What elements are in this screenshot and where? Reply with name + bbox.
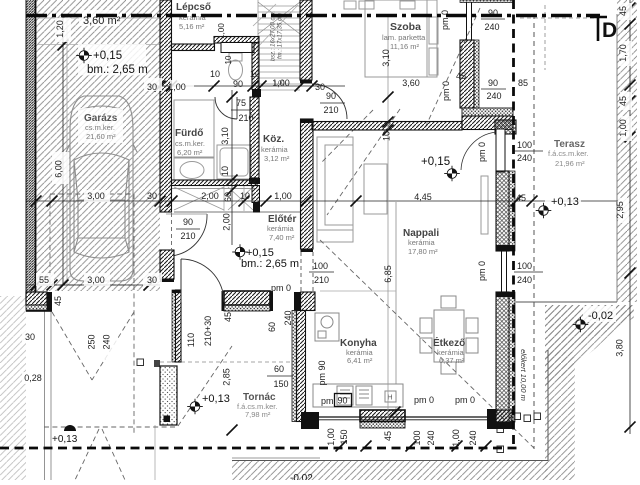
svg-text:150: 150 [339, 429, 349, 444]
svg-text:100: 100 [412, 430, 422, 445]
svg-text:60: 60 [267, 322, 277, 332]
tornac dashed edge [44, 426, 176, 428]
svg-text:6,37 m²: 6,37 m² [439, 356, 465, 365]
svg-text:pm 0: pm 0 [477, 261, 487, 281]
svg-text:240: 240 [102, 334, 112, 349]
wall with window (lepcso north) [214, 37, 259, 44]
svg-text:kerámia: kerámia [267, 224, 295, 233]
furdo south wall [172, 180, 258, 186]
svg-text:75: 75 [236, 98, 246, 108]
right vertical dim x=630 [629, 0, 631, 434]
svg-text:1,00: 1,00 [274, 191, 292, 201]
svg-text:45: 45 [383, 431, 393, 441]
svg-text:1,00: 1,00 [618, 119, 628, 137]
svg-text:bm.: 2,65 m: bm.: 2,65 m [87, 64, 148, 76]
svg-text:fm.: 17x17,35 cm: fm.: 17x17,35 cm [278, 13, 284, 59]
konyha west wall [292, 311, 297, 422]
left vertical dimension line x=63 [62, 15, 64, 285]
sofa nappali [317, 137, 353, 242]
tornac west wall [172, 290, 176, 362]
svg-text:30: 30 [315, 82, 325, 92]
svg-text:100: 100 [517, 140, 532, 150]
svg-text:210: 210 [323, 105, 338, 115]
wc door arc [215, 97, 237, 119]
svg-text:3,00: 3,00 [87, 191, 105, 201]
bed in szoba [344, 0, 438, 77]
svg-text:210: 210 [180, 231, 195, 241]
svg-text:210: 210 [314, 275, 329, 285]
svg-text:pm: pm [321, 396, 334, 406]
svg-text:f.á.cs.m.ker.: f.á.cs.m.ker. [548, 149, 588, 158]
svg-text:cs.m.ker.: cs.m.ker. [85, 123, 115, 132]
svg-text:bsz.: 16x27,00 cm.: bsz.: 16x27,00 cm. [271, 11, 277, 61]
svg-text:1,00: 1,00 [451, 429, 461, 447]
svg-text:30: 30 [147, 191, 157, 201]
ground right of building below terrace [545, 305, 634, 362]
svg-text:3,80: 3,80 [615, 339, 625, 357]
svg-text:-0,02: -0,02 [588, 310, 613, 322]
svg-text:5,16 m²: 5,16 m² [179, 22, 205, 31]
svg-text:6,41 m²: 6,41 m² [347, 356, 373, 365]
svg-text:0,28: 0,28 [24, 373, 42, 383]
svg-text:11,16 m²: 11,16 m² [390, 42, 420, 51]
vertical dim through koz x=232 [231, 90, 233, 245]
svg-text:pm 0: pm 0 [414, 395, 434, 405]
NE corner block [462, 108, 513, 116]
lepcso top thin wall [172, 44, 215, 51]
svg-text:3,10: 3,10 [381, 49, 391, 67]
svg-text:2,95: 2,95 [615, 201, 625, 219]
szoba door arc [312, 84, 347, 119]
svg-text:-0,02: -0,02 [290, 473, 313, 480]
svg-text:90: 90 [183, 217, 193, 227]
svg-text:pm 0: pm 0 [441, 81, 451, 101]
svg-text:2,00: 2,00 [222, 213, 232, 231]
svg-text:kerámia: kerámia [261, 145, 289, 154]
svg-text:100: 100 [313, 261, 328, 271]
svg-text:90: 90 [488, 78, 498, 88]
svg-text:6,85: 6,85 [383, 265, 393, 283]
bold dashed roof edge vertical [512, 0, 515, 447]
svg-text:30: 30 [25, 332, 35, 342]
svg-text:240: 240 [484, 22, 499, 32]
bottom dim ticks on roof dashed line [227, 425, 238, 436]
svg-text:240: 240 [486, 91, 501, 101]
svg-text:pm 0: pm 0 [440, 10, 450, 30]
main horizontal dimension line y=201 [26, 200, 617, 202]
right earth strip [617, 0, 637, 302]
tv bench nappali east [481, 176, 488, 234]
svg-text:250: 250 [87, 334, 97, 349]
svg-text:210: 210 [238, 113, 253, 123]
szoba west wall lower / eloter east wall [301, 119, 314, 249]
svg-text:45: 45 [618, 6, 628, 16]
svg-text:110: 110 [186, 333, 196, 347]
text halos over hatch [79, 10, 119, 26]
svg-text:3,60: 3,60 [402, 78, 420, 88]
wc toilet [229, 53, 243, 80]
svg-text:Köz.: Köz. [263, 134, 284, 145]
svg-text:kerámia: kerámia [408, 238, 436, 247]
svg-text:4,45: 4,45 [414, 192, 432, 202]
wc east wall [252, 43, 259, 90]
svg-text:2,85: 2,85 [222, 368, 232, 386]
svg-text:3,10: 3,10 [220, 127, 230, 145]
svg-text:2,00: 2,00 [201, 191, 219, 201]
svg-text:21,60 m²: 21,60 m² [86, 132, 116, 141]
svg-text:pm 0: pm 0 [455, 395, 475, 405]
nappali east window [501, 251, 503, 292]
driveway/garage ground hatch [36, 0, 160, 291]
svg-text:7,98 m²: 7,98 m² [245, 410, 271, 419]
bold dashed roof edge horizontal [0, 447, 517, 450]
dimension line y=86 [148, 85, 345, 87]
fence posts [514, 413, 521, 420]
svg-text:Szoba: Szoba [390, 21, 421, 33]
wall south of eloter door [294, 292, 301, 311]
svg-text:Lépcső: Lépcső [176, 2, 211, 13]
property/garden dashed line [533, 14, 535, 449]
svg-text:10: 10 [250, 69, 260, 79]
svg-text:10: 10 [382, 131, 392, 141]
entrance sill (tornac) [224, 291, 270, 305]
svg-text:6,00: 6,00 [54, 160, 64, 178]
vertical dim x=388 [387, 16, 389, 417]
svg-text:55: 55 [39, 275, 49, 285]
west wall (staircase/bath) [160, 0, 172, 212]
SE corner [487, 409, 496, 429]
left lower sparse hatch [0, 296, 26, 480]
svg-text:3,00: 3,00 [87, 275, 105, 285]
svg-text:+0,13: +0,13 [551, 196, 579, 208]
svg-text:240: 240 [517, 153, 532, 163]
nappali east wall lower [496, 292, 509, 422]
svg-text:90: 90 [326, 91, 336, 101]
furdo/corridor door arc [175, 214, 208, 256]
svg-text:pm 0: pm 0 [477, 142, 487, 162]
svg-text:90: 90 [338, 396, 348, 406]
svg-text:3,12 m²: 3,12 m² [264, 154, 290, 163]
svg-text:+0,13: +0,13 [202, 393, 230, 405]
svg-text:240: 240 [426, 430, 436, 445]
svg-text:30: 30 [147, 275, 157, 285]
svg-text:+0,15: +0,15 [93, 50, 122, 62]
svg-text:előkert 10,00 m: előkert 10,00 m [519, 349, 528, 401]
south window sill band [317, 416, 490, 418]
dimension line y=285 (garage door) [26, 284, 160, 286]
coffee table [364, 164, 387, 214]
svg-text:90: 90 [233, 79, 243, 89]
roof centre dash-dot line [26, 14, 600, 17]
door jamb dashes (eloter-nappali door) [300, 252, 302, 292]
svg-text:10: 10 [224, 55, 233, 64]
bathroom fixtures [174, 100, 251, 180]
svg-text:45: 45 [223, 312, 233, 322]
svg-text:100: 100 [517, 261, 532, 271]
terasz door jamb [495, 120, 516, 134]
svg-text:45: 45 [516, 193, 526, 203]
svg-text:pm 90: pm 90 [317, 360, 327, 385]
svg-text:1,70: 1,70 [618, 44, 628, 62]
svg-text:1,00: 1,00 [217, 23, 226, 39]
niche east wall stub [252, 186, 260, 203]
svg-text:85: 85 [518, 78, 528, 88]
svg-text:17,80 m²: 17,80 m² [408, 247, 438, 256]
svg-text:21,96 m²: 21,96 m² [555, 159, 585, 168]
terasz door leaf and arc [496, 129, 505, 172]
construction lines [66, 17, 68, 285]
car in garage [66, 96, 137, 281]
left earth strip dense hatch [26, 0, 36, 292]
svg-text:240: 240 [517, 275, 532, 285]
svg-text:pm 0: pm 0 [271, 283, 291, 293]
roof hip dashed diagonals [425, 8, 480, 128]
terrace apron edge [547, 350, 549, 461]
garage SW corner pillar [26, 292, 47, 305]
garage door dashed [133, 285, 135, 433]
svg-text:60: 60 [223, 192, 233, 202]
svg-text:60: 60 [274, 364, 284, 374]
svg-text:150: 150 [273, 379, 288, 389]
dining table and chairs [420, 296, 478, 374]
entrance door arc [180, 259, 182, 302]
svg-text:1,00: 1,00 [326, 428, 336, 446]
svg-text:D: D [602, 19, 617, 42]
svg-text:Fürdő: Fürdő [175, 128, 203, 139]
svg-text:cs.m.ker.: cs.m.ker. [175, 139, 205, 148]
svg-text:7,40 m²: 7,40 m² [269, 233, 295, 242]
level symbols [76, 48, 92, 64]
svg-text:210+30: 210+30 [203, 316, 213, 346]
bottom ground band [232, 461, 548, 480]
svg-text:lam. parketta: lam. parketta [382, 33, 426, 42]
svg-text:10: 10 [220, 166, 230, 176]
svg-text:1,00: 1,00 [274, 81, 285, 87]
niche cross marks [174, 187, 224, 210]
nappali east wall upper [496, 171, 509, 251]
svg-text:45: 45 [456, 71, 466, 81]
svg-text:10: 10 [210, 69, 220, 79]
nappali north wall [312, 122, 462, 131]
svg-text:45: 45 [53, 296, 63, 306]
dashed terrace top guides [520, 17, 598, 19]
svg-text:1,00: 1,00 [168, 82, 186, 92]
section mark D [590, 16, 607, 19]
svg-text:1,20: 1,20 [55, 20, 65, 38]
stairs treads [258, 0, 300, 92]
svg-text:240: 240 [283, 310, 293, 325]
svg-text:30: 30 [147, 82, 157, 92]
svg-text:bm.: 2,65 m: bm.: 2,65 m [241, 258, 299, 270]
svg-text:+0,13: +0,13 [52, 434, 78, 445]
tornac pillar [160, 366, 177, 425]
svg-text:6,20 m²: 6,20 m² [177, 148, 203, 157]
svg-text:10: 10 [240, 191, 250, 201]
szoba west wall upper [300, 0, 312, 80]
szoba east wall + window [460, 0, 513, 3]
parking dashed rectangle [50, 194, 134, 285]
svg-text:45: 45 [618, 96, 628, 106]
svg-text:240: 240 [468, 430, 478, 445]
svg-text:+0,15: +0,15 [421, 156, 450, 168]
kitchen counters [313, 313, 403, 407]
furdo east wall [250, 97, 259, 178]
